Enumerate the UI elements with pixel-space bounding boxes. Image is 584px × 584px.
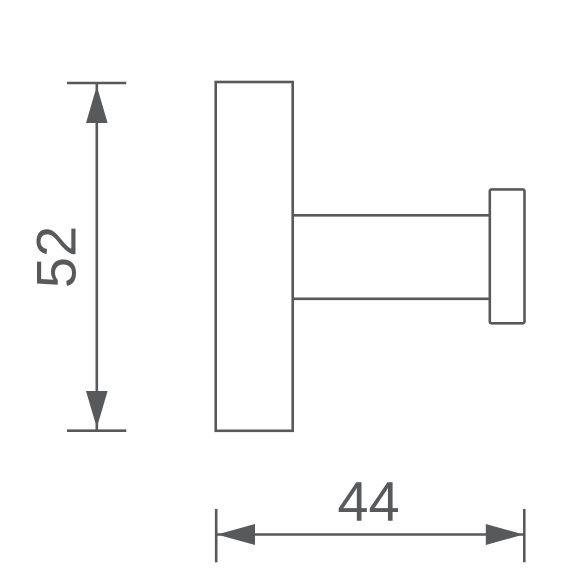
left arrowhead	[217, 524, 255, 545]
stem bottom line	[293, 297, 490, 300]
down arrowhead	[86, 391, 108, 428]
svg-text:44: 44	[337, 470, 399, 533]
top extension tick	[67, 82, 126, 85]
right arrowhead	[486, 524, 524, 545]
svg-text:52: 52	[24, 226, 87, 288]
stem top line	[293, 214, 490, 217]
up arrowhead	[86, 86, 108, 123]
bottom extension tick	[67, 429, 126, 432]
right extension tick	[523, 509, 526, 562]
vertical dimension line	[96, 84, 99, 430]
horizontal dimension line	[217, 533, 524, 536]
wall plate outline	[216, 82, 293, 431]
end cap outline	[490, 189, 525, 323]
left extension tick	[215, 509, 218, 562]
